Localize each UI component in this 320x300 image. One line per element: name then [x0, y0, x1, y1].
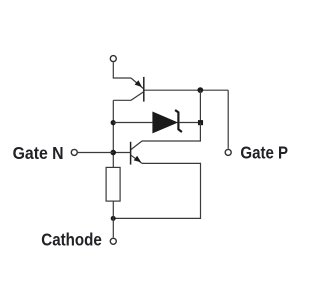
node junction diode anode — [111, 120, 116, 125]
svg-text:Gate N: Gate N — [13, 143, 64, 163]
anode terminal — [110, 56, 116, 62]
resistor R1 body — [106, 167, 120, 201]
transistor Q1 emitter arrow — [135, 80, 142, 87]
node junction at diode cathode — [198, 120, 203, 125]
node junction below resistor — [111, 216, 116, 221]
transistor Q2 emitter arrow — [134, 156, 142, 163]
wire resistor to cathode node — [112, 201, 114, 238]
wire Q1 base to Gate P rail — [144, 89, 228, 91]
wire Q2 emitter to right rail — [113, 163, 200, 218]
Gate P terminal — [225, 149, 231, 155]
wire anode to Q1 emitter — [113, 62, 131, 78]
node junction Gate N — [110, 150, 116, 156]
transistor Q2 emitter — [131, 155, 142, 163]
transistor Q2 base bar — [130, 142, 132, 165]
svg-text:Gate P: Gate P — [240, 142, 288, 162]
transistor Q1 base bar — [143, 77, 145, 102]
transistor Q1 emitter — [131, 78, 143, 89]
wire diode cathode segment — [179, 122, 198, 124]
transistor Q1 collector — [113, 92, 143, 100]
wire diode node down to Q2 collector — [142, 123, 200, 141]
Cathode terminal — [110, 238, 116, 244]
wire junction down to diode cathode — [199, 90, 201, 122]
left rail wire Q1 collector down through nodes — [112, 100, 114, 167]
wire Gate N to node — [78, 152, 113, 154]
transistor Q2 collector — [131, 141, 142, 150]
Gate N terminal — [71, 149, 77, 155]
zener diode D1 triangle — [152, 112, 178, 134]
wire diode anode segment — [113, 122, 152, 124]
node junction at base rail — [197, 87, 203, 93]
zener diode D1 cathode bar — [175, 110, 182, 132]
wire Gate P rail down — [227, 90, 229, 149]
svg-text:Cathode: Cathode — [41, 230, 102, 250]
transistor Q2 base wire from Gate N node — [113, 152, 130, 154]
